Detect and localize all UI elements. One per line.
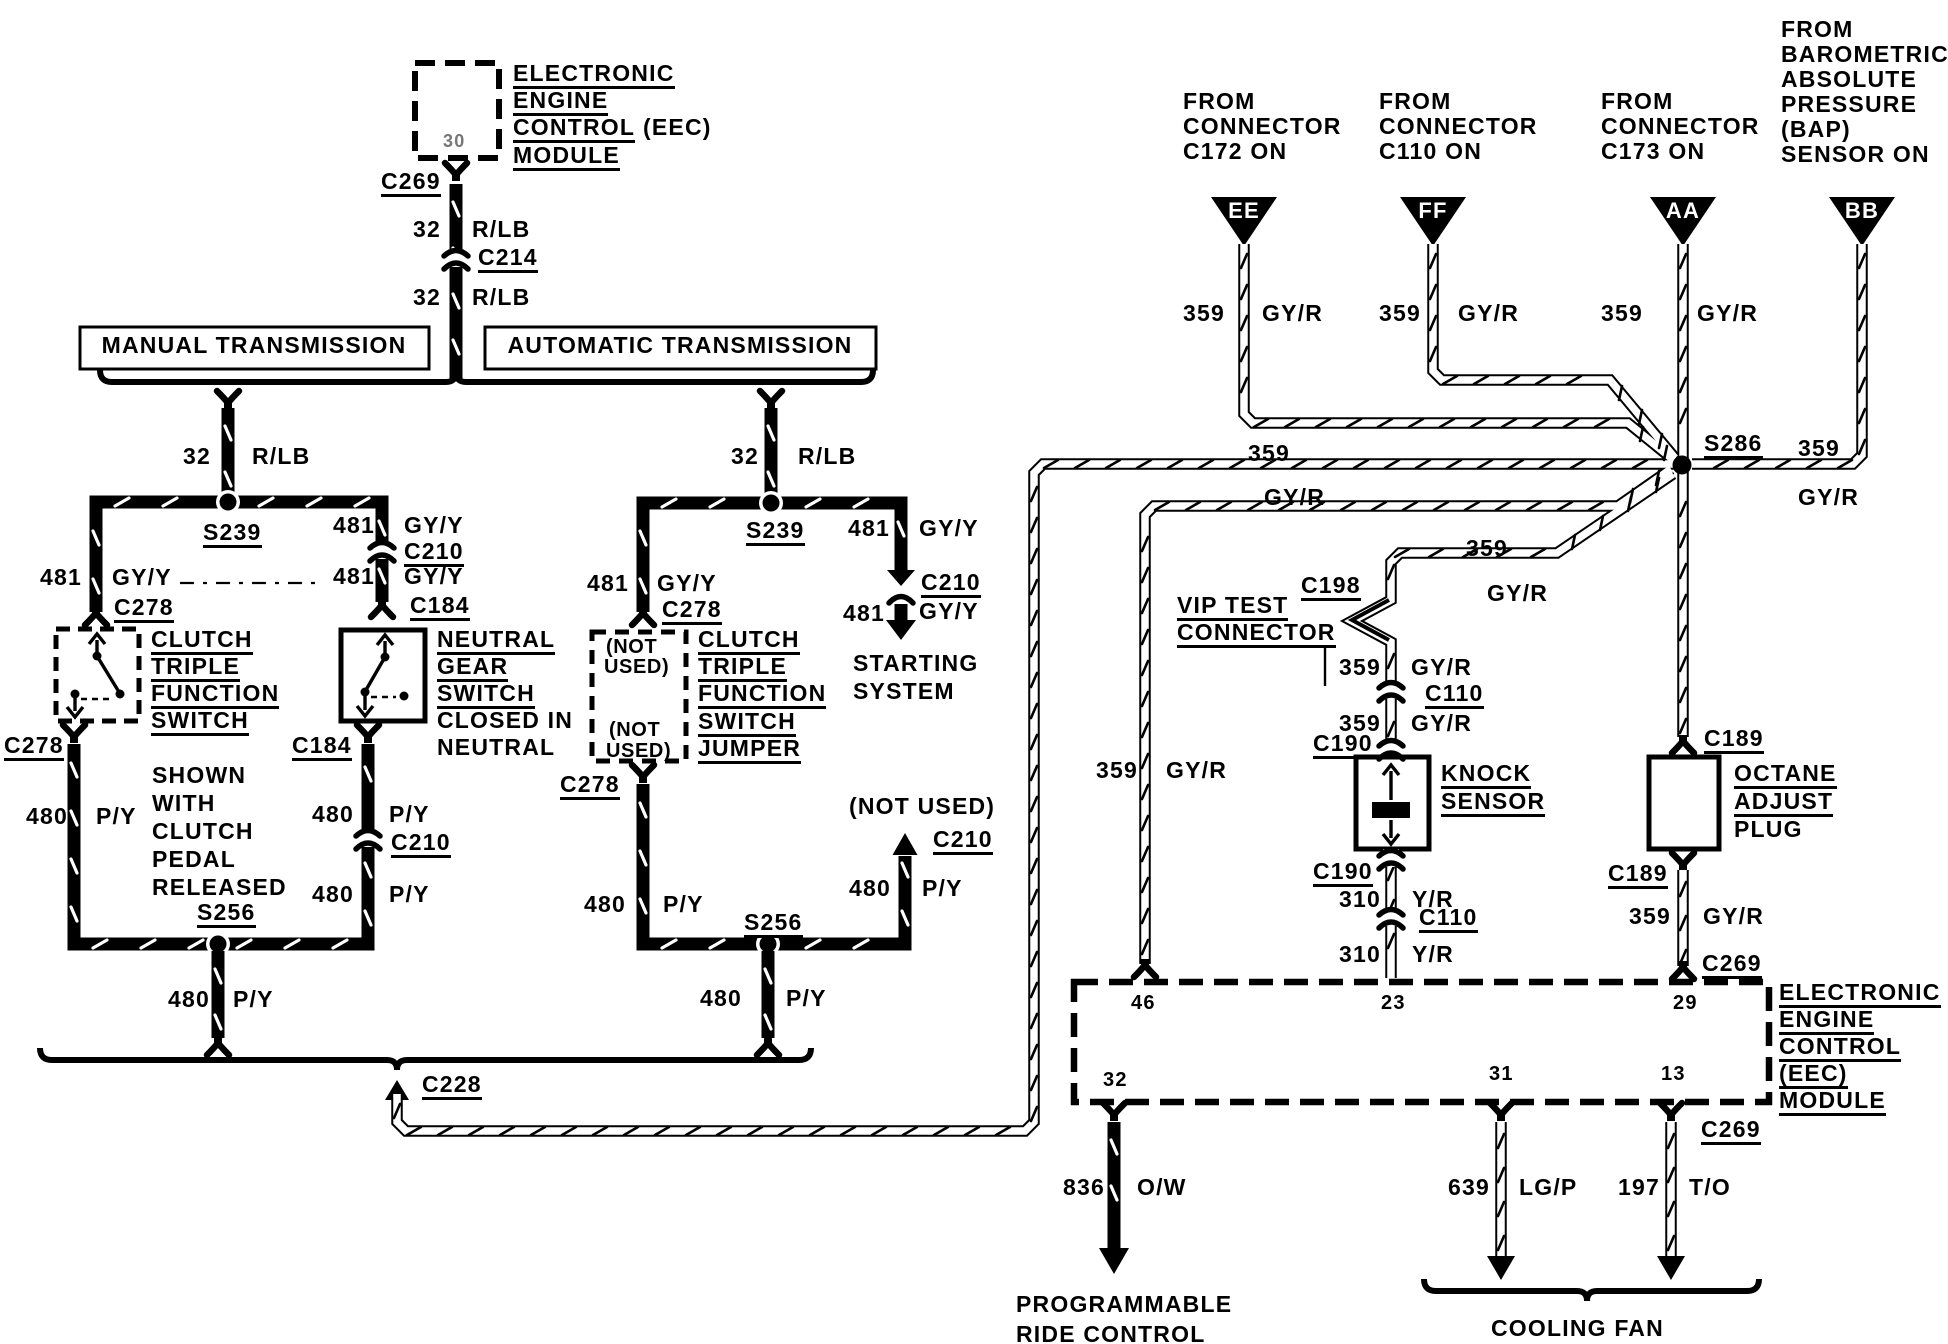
node AA triangle <box>1650 197 1716 246</box>
wire 480 P/Y to C228 (manual) <box>215 951 221 1038</box>
connector pin 31 <box>1490 1103 1512 1121</box>
node EE triangle <box>1211 197 1277 246</box>
splice S239 (automatic) <box>759 491 783 515</box>
clutch switch symbol <box>67 634 125 717</box>
wire 359 GY/R from AA to C189 (interior) <box>1679 244 1687 737</box>
wire 359 GY/R from AA to C189 <box>1677 244 1689 737</box>
EEC module (bottom) dashed box <box>1074 982 1769 1102</box>
leader line GY/Y <box>180 582 322 584</box>
connector C278 (auto, not used) <box>632 607 654 625</box>
wire 359 GY/R C228 to S286 (interior) <box>397 464 1676 1131</box>
arrow half of C210 <box>887 570 915 586</box>
brace to C228 <box>40 1048 811 1070</box>
wire 359 GY/R from BB <box>1692 244 1862 464</box>
arrow half of C210 not used <box>893 833 918 855</box>
connector C110 (lower) <box>1379 908 1403 928</box>
wire 639 LG/P <box>1498 1122 1504 1258</box>
brace grouping transmissions <box>100 370 873 382</box>
wire 359 GY/R from FF (hatching) <box>1430 254 1436 268</box>
connector end (auto 480) <box>757 1037 779 1055</box>
wire 359 GY/R from BB (hatching) <box>1859 254 1865 268</box>
knock sensor element <box>1372 765 1410 844</box>
connector (auto branch top) <box>760 391 782 409</box>
wire 359 GY/R octane plug to EEC pin 29 <box>1680 870 1686 966</box>
connector C210 (manual lower) <box>356 829 380 849</box>
wire 310 Y/R knock sensor to EEC pin 23 <box>1388 854 1394 978</box>
arrow to starting system <box>886 620 916 640</box>
connector (manual branch top) <box>217 391 239 409</box>
wire 480 P/Y loop (manual) <box>71 744 371 948</box>
wire 359 GY/R from EE (hatching) <box>1241 254 1247 268</box>
splice S286 <box>1673 456 1692 475</box>
clutch switch jumper box (not used) <box>592 632 686 761</box>
wire 32 R/LB automatic branch <box>768 408 774 501</box>
connector C269 <box>445 163 467 181</box>
connector C214 <box>444 249 468 269</box>
knock sensor box <box>1356 757 1429 849</box>
leader line VIP test connector <box>1324 648 1326 686</box>
connector C189 (bottom) <box>1672 853 1694 871</box>
wire 481 GY/Y to starting system <box>895 604 908 620</box>
wire 359 GY/R from AA to C189 (hatching) <box>1680 254 1686 268</box>
connector C110 (upper) <box>1379 681 1403 701</box>
wire 32 R/LB from EEC C269 <box>453 184 459 380</box>
clutch triple function switch box <box>56 629 139 721</box>
splice S256 (manual) <box>206 932 230 956</box>
arrow to programmable ride control <box>1099 1248 1129 1274</box>
connector C190 (upper) <box>1379 739 1403 759</box>
wire 480 P/Y to C228 (auto) <box>765 951 771 1038</box>
arrow to cooling fan 2 <box>1657 1256 1685 1280</box>
wire 481 GY/Y via S239 (auto) <box>640 499 904 612</box>
connector C269 pin 29 <box>1672 961 1694 979</box>
node BB triangle <box>1829 197 1895 246</box>
connector C184 (switch top) <box>371 599 393 617</box>
wire 359 GY/R S286 to EEC pin 46 <box>1145 469 1671 964</box>
connector C278 (below jumper) <box>632 765 654 783</box>
wire 359 GY/R C228 to S286 (hatching) <box>394 1104 400 1118</box>
splice S256 (automatic) <box>756 932 780 956</box>
wire 359 GY/R S286 to EEC pin 46 (interior) <box>1145 469 1671 964</box>
connector C184 (below switch) <box>357 725 379 743</box>
wire 359 GY/R from FF <box>1433 244 1675 458</box>
wire 359 GY/R C228 to S286 <box>397 464 1676 1131</box>
neutral switch symbol <box>357 635 409 716</box>
arrow to cooling fan 1 <box>1487 1256 1515 1280</box>
connector pin 46 <box>1134 959 1156 977</box>
connector C190 (lower) <box>1379 849 1403 869</box>
connector C198 (VIP test connector) <box>1352 600 1389 640</box>
node FF triangle <box>1400 197 1466 246</box>
splice S239 (manual) <box>216 490 240 514</box>
neutral gear switch box <box>341 630 425 721</box>
wire 359 GY/R S286 to EEC pin 46 (hatching) <box>1142 940 1148 954</box>
wire 32 R/LB manual branch <box>225 408 231 500</box>
wire 197 T/O <box>1668 1122 1674 1258</box>
wire 359 GY/R from EE <box>1244 244 1676 462</box>
AUTOMATIC TRANSMISSION box <box>485 327 876 369</box>
connector C210 (manual upper) <box>370 541 394 561</box>
connector end (manual 480) <box>207 1037 229 1055</box>
connector C228 arrow <box>385 1080 409 1100</box>
wire 836 O/W <box>1111 1122 1117 1250</box>
EEC module (top) dashed box <box>415 63 499 158</box>
brace cooling fan <box>1424 1279 1759 1301</box>
connector C189 (top) <box>1672 735 1694 753</box>
MANUAL TRANSMISSION box <box>80 327 429 369</box>
wire 481 GY/Y via S239 (manual) <box>93 498 385 612</box>
connector pin 32 <box>1103 1103 1125 1121</box>
octane adjust plug box <box>1649 757 1719 849</box>
wire 359 GY/R S286 via C198 VIP test connector to knock sensor (interior) <box>1352 474 1673 752</box>
wire 480 P/Y loop (auto) <box>640 784 908 948</box>
wire 359 GY/R S286 via C198 VIP test connector to knock sensor <box>1352 474 1673 752</box>
connector C278 (below switch) <box>63 725 85 743</box>
connector pin 13 <box>1660 1103 1682 1121</box>
wire 359 GY/R from FF (interior) <box>1433 244 1675 458</box>
wire 359 GY/R S286 via C198 VIP test connector to knock sensor (hatching) <box>1656 478 1659 492</box>
wire 359 GY/R from BB (interior) <box>1692 244 1862 464</box>
connector C278 (switch top) <box>85 607 107 625</box>
wire 359 GY/R from EE (interior) <box>1244 244 1676 462</box>
